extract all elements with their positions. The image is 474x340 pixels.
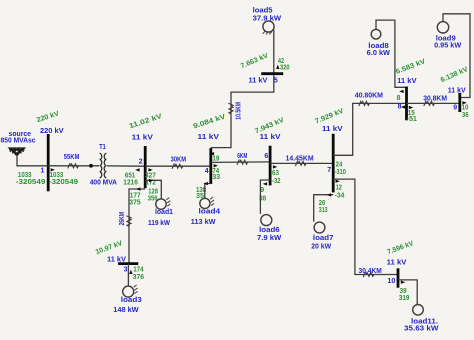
svg-text:-34: -34 <box>335 193 345 200</box>
svg-text:11 kV: 11 kV <box>132 134 154 141</box>
svg-text:4: 4 <box>205 168 209 175</box>
bus 7 <box>332 134 335 193</box>
svg-text:11 kV: 11 kV <box>397 78 417 85</box>
svg-text:30.8KM: 30.8KM <box>423 95 447 102</box>
load4 stub wire <box>205 184 211 199</box>
svg-text:10: 10 <box>387 278 395 285</box>
svg-text:0.95 kW: 0.95 kW <box>434 43 461 50</box>
svg-text:19: 19 <box>212 156 219 163</box>
svg-text:11 kV: 11 kV <box>260 134 281 141</box>
svg-text:load4: load4 <box>199 209 221 216</box>
flow arrows at bus2 <box>135 168 139 171</box>
svg-text:-51: -51 <box>407 116 417 123</box>
svg-text:26KM: 26KM <box>119 212 126 226</box>
svg-text:148 kW: 148 kW <box>113 307 139 314</box>
load1 stub wire <box>145 180 161 199</box>
svg-text:37.9 kW: 37.9 kW <box>253 15 282 22</box>
svg-text:20 kW: 20 kW <box>311 243 331 250</box>
svg-text:5: 5 <box>274 78 278 85</box>
svg-text:3: 3 <box>124 267 128 274</box>
svg-text:26: 26 <box>319 200 326 207</box>
svg-text:400 MVA: 400 MVA <box>90 180 117 187</box>
flow arrow right of bus1 <box>51 168 55 171</box>
load8 feed wire <box>376 20 407 87</box>
svg-text:10: 10 <box>462 105 469 112</box>
load3 circle <box>123 286 134 297</box>
svg-text:7.9 kW: 7.9 kW <box>257 235 282 242</box>
load5 feed: from load5 circle down through bus5 to bus4 top (line 10.5KM) <box>211 30 274 148</box>
bus6 flow numbers <box>273 165 277 168</box>
svg-text:6KM: 6KM <box>237 153 247 160</box>
svg-text:55KM: 55KM <box>64 154 80 161</box>
svg-text:11 kV: 11 kV <box>198 134 220 141</box>
load6 circle <box>261 215 272 226</box>
svg-text:-310: -310 <box>335 169 346 176</box>
svg-text:8: 8 <box>398 104 402 111</box>
bus9 flow numbers <box>462 101 466 104</box>
svg-text:850 MVAsc: 850 MVAsc <box>1 138 36 145</box>
bus 2 <box>144 146 147 188</box>
source symbol (hatched triangle) <box>9 148 25 155</box>
breaker on line 30KM <box>172 163 183 168</box>
wire bus2 to bus4 (line 30KM) <box>145 165 211 167</box>
svg-text:load1: load1 <box>155 209 173 216</box>
bus 6 <box>269 146 272 186</box>
svg-text:T1: T1 <box>99 144 106 151</box>
svg-text:177: 177 <box>130 192 141 199</box>
svg-text:2: 2 <box>139 159 143 166</box>
wire bus4 to bus6 (line 6KM) <box>211 161 270 164</box>
svg-text:11 kV: 11 kV <box>448 88 466 95</box>
svg-text:1: 1 <box>41 168 45 175</box>
load6 stub wire <box>260 180 270 214</box>
wire bus7 down to bus10 (line 30.4KM) <box>333 179 398 274</box>
svg-text:11 kV: 11 kV <box>249 78 268 85</box>
svg-text:load5: load5 <box>253 8 273 15</box>
svg-text:174: 174 <box>133 267 144 274</box>
bus8 flow numbers <box>399 90 403 93</box>
bus 8 <box>405 87 408 121</box>
bus 4 <box>209 148 212 184</box>
svg-text:220 kV: 220 kV <box>40 128 64 135</box>
breaker on line 10.5KM <box>228 103 233 114</box>
svg-text:39: 39 <box>400 288 407 295</box>
svg-text:36: 36 <box>462 112 469 119</box>
svg-text:6.0 kW: 6.0 kW <box>367 50 391 57</box>
breaker on line 30.4KM <box>363 272 374 277</box>
load11 circle <box>413 305 424 316</box>
load9 circle <box>437 22 448 33</box>
breaker on line 26KM <box>126 216 131 227</box>
svg-text:load6: load6 <box>259 227 280 234</box>
load9 feed wire <box>443 14 470 98</box>
load7 circle <box>314 222 325 233</box>
bus 5 (horizontal) <box>261 72 283 75</box>
svg-text:12: 12 <box>336 185 342 192</box>
breaker on line 14.45KM <box>295 161 306 166</box>
svg-text:327: 327 <box>145 172 156 179</box>
wire bus8 to bus9 (line 30.8KM) <box>407 102 460 104</box>
svg-text:8: 8 <box>397 95 401 102</box>
svg-text:651: 651 <box>125 172 135 179</box>
wire bus6 to bus7 (line 14.45KM) <box>270 162 333 164</box>
svg-text:30KM: 30KM <box>171 156 187 163</box>
wire T1 to bus2 <box>107 165 145 167</box>
svg-text:-320549: -320549 <box>49 179 78 186</box>
bus 9 <box>458 93 461 112</box>
junction dot <box>89 164 93 168</box>
svg-text:320: 320 <box>280 64 290 71</box>
svg-text:-32: -32 <box>272 178 281 185</box>
load7 stub wire <box>314 195 334 222</box>
line 26KM from bus2 down to bus3 <box>129 189 145 264</box>
svg-text:128: 128 <box>148 189 158 196</box>
svg-text:load9: load9 <box>436 35 456 42</box>
wire bus3 to load3 <box>127 264 129 287</box>
bus 1 <box>47 134 50 191</box>
breaker on line 55KM <box>68 163 79 168</box>
svg-text:63: 63 <box>272 170 279 177</box>
load11 stub wire <box>398 280 417 305</box>
svg-text:6: 6 <box>264 153 268 160</box>
svg-text:load11.: load11. <box>411 318 438 325</box>
transformer T1 windings <box>100 153 102 177</box>
svg-text:376: 376 <box>133 274 144 281</box>
svg-text:1216: 1216 <box>123 179 138 186</box>
bus 10 <box>397 268 400 287</box>
wire bus1 to T1 (line 55KM) <box>48 165 99 167</box>
svg-text:11 kV: 11 kV <box>387 260 407 267</box>
svg-text:7: 7 <box>327 167 331 174</box>
breaker on line 30.8KM <box>424 101 435 106</box>
svg-text:-320549: -320549 <box>16 179 46 186</box>
svg-text:113 kW: 113 kW <box>191 219 216 226</box>
load1 circle <box>156 199 166 209</box>
svg-text:11 kV: 11 kV <box>322 126 343 133</box>
breaker on line 6KM <box>237 159 248 164</box>
svg-text:14.45KM: 14.45KM <box>286 155 314 162</box>
bus4 flow numbers <box>210 152 214 155</box>
svg-text:24: 24 <box>336 162 343 169</box>
load4 circle <box>200 198 210 208</box>
load8 circle <box>371 29 381 39</box>
bus 3 <box>118 262 138 265</box>
svg-text:375: 375 <box>129 200 141 207</box>
svg-text:30.4KM: 30.4KM <box>359 268 382 275</box>
svg-text:9: 9 <box>453 105 457 112</box>
svg-text:35.63 kW: 35.63 kW <box>404 326 439 333</box>
svg-text:10.5KM: 10.5KM <box>235 102 242 120</box>
load5 circle <box>263 21 274 32</box>
svg-text:319: 319 <box>399 295 409 302</box>
svg-text:40.80KM: 40.80KM <box>355 92 383 99</box>
breaker on line 40.80KM <box>359 101 370 106</box>
svg-text:load3: load3 <box>121 297 142 304</box>
svg-text:313: 313 <box>319 207 328 214</box>
svg-text:33: 33 <box>212 174 220 181</box>
svg-text:119 kW: 119 kW <box>148 220 170 227</box>
source Vsource stem and elbow wire <box>17 155 48 166</box>
wire bus7 up-right to bus8 (line 40.80KM) <box>333 103 406 155</box>
svg-text:load7: load7 <box>313 235 334 242</box>
